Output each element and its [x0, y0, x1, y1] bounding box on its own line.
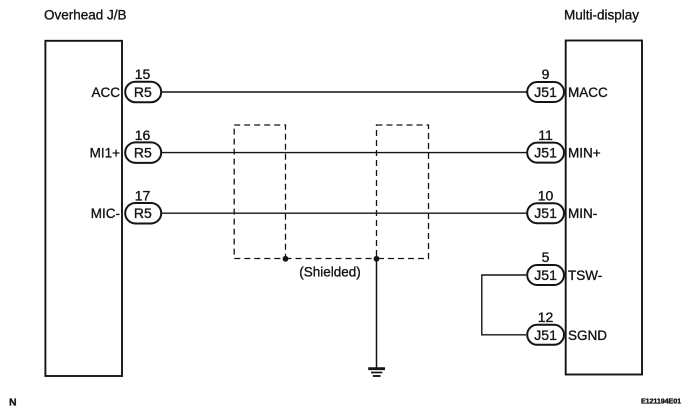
- svg-text:Multi-display: Multi-display: [564, 7, 639, 22]
- svg-text:9: 9: [542, 66, 550, 82]
- block Multi-display box: [566, 41, 642, 375]
- junction dot left: [283, 256, 289, 262]
- svg-text:J51: J51: [534, 205, 557, 221]
- connector J51 pin 9: [527, 82, 564, 102]
- svg-text:J51: J51: [534, 267, 557, 283]
- wire shield to ground: [376, 259, 378, 368]
- svg-text:TSW-: TSW-: [568, 268, 602, 283]
- svg-text:MACC: MACC: [568, 85, 608, 100]
- svg-text:J51: J51: [534, 145, 557, 161]
- svg-text:(Shielded): (Shielded): [299, 265, 361, 280]
- svg-text:10: 10: [538, 187, 554, 203]
- svg-text:16: 16: [135, 127, 151, 143]
- svg-text:MI1+: MI1+: [90, 146, 121, 161]
- svg-text:E121194E01: E121194E01: [641, 396, 681, 405]
- svg-text:MIN+: MIN+: [568, 146, 601, 161]
- wire ACC to MACC: [161, 91, 527, 93]
- svg-text:N: N: [9, 397, 17, 409]
- connector J51 pin 5: [527, 265, 564, 285]
- shield right dashed box: [377, 125, 429, 259]
- connector R5 pin 17: [125, 203, 161, 224]
- wire TSW- to SGND jumper: [482, 275, 526, 335]
- svg-text:ACC: ACC: [91, 85, 120, 100]
- svg-text:11: 11: [538, 127, 553, 143]
- svg-text:12: 12: [538, 309, 554, 325]
- svg-text:SGND: SGND: [568, 328, 607, 343]
- connector R5 pin 16: [125, 142, 161, 163]
- shield bottom dashed link: [286, 258, 377, 260]
- wire MI1+ to MIN+: [161, 152, 527, 154]
- svg-text:MIN-: MIN-: [568, 206, 597, 221]
- connector J51 pin 11: [527, 143, 564, 163]
- junction dot right: [374, 256, 380, 262]
- svg-text:MIC-: MIC-: [91, 206, 120, 221]
- svg-text:R5: R5: [134, 205, 152, 221]
- svg-text:R5: R5: [134, 84, 152, 100]
- svg-text:Overhead J/B: Overhead J/B: [44, 7, 127, 22]
- svg-text:15: 15: [135, 66, 151, 82]
- svg-text:5: 5: [542, 249, 550, 265]
- block Overhead J/B box: [45, 41, 122, 376]
- svg-text:J51: J51: [534, 327, 557, 343]
- svg-text:17: 17: [135, 187, 151, 203]
- svg-text:J51: J51: [534, 84, 557, 100]
- connector R5 pin 15: [125, 82, 161, 103]
- svg-text:R5: R5: [134, 145, 152, 161]
- connector J51 pin 10: [527, 203, 564, 223]
- wire MIC- to MIN-: [161, 212, 527, 214]
- connector J51 pin 12: [527, 325, 564, 345]
- shield left dashed box: [234, 125, 285, 259]
- ground: [368, 369, 385, 376]
